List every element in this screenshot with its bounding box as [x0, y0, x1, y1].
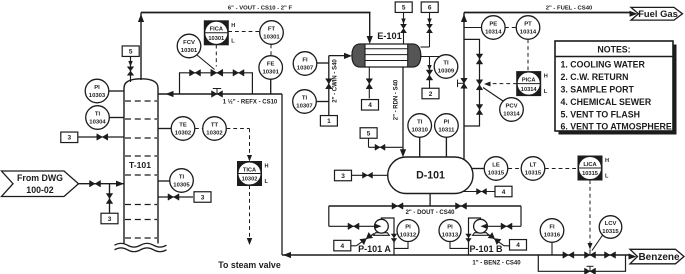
notes box shadow	[559, 45, 677, 135]
control valve LCV on header	[589, 250, 591, 256]
svg-text:5: 5	[129, 49, 133, 56]
wire D-101 bottoms stub	[429, 194, 431, 207]
controller FICA 10301	[204, 21, 228, 45]
instrument FCV 10301	[197, 55, 215, 70]
instrument FI 10316	[551, 243, 553, 255]
exchanger E-101 left head	[352, 44, 365, 67]
tag box 5 vent to flash D-101	[360, 128, 377, 139]
svg-text:10315: 10315	[582, 171, 598, 177]
wire DOUT header	[329, 205, 521, 207]
wire tube vent to atmosphere	[429, 13, 431, 48]
valve on left sample line	[97, 134, 108, 141]
instrument LCV 10315 bubble	[592, 235, 603, 251]
svg-text:10301: 10301	[263, 35, 280, 41]
svg-text:5: 5	[402, 5, 406, 12]
svg-text:4. CHEMICAL SEWER: 4. CHEMICAL SEWER	[561, 97, 652, 107]
controller PICA 10314	[517, 72, 541, 96]
wire FI 10307 stub	[317, 62, 329, 64]
svg-text:4: 4	[502, 189, 506, 196]
wire CW return outlet	[421, 56, 440, 58]
svg-text:5: 5	[367, 130, 371, 137]
instrument TT 10302	[203, 117, 227, 141]
svg-text:10303: 10303	[89, 93, 106, 99]
valve tube vent	[427, 24, 433, 33]
svg-text:LCV: LCV	[605, 221, 617, 227]
instrument PI 10313	[450, 242, 469, 249]
column T-101 shell	[124, 79, 158, 244]
svg-text:4: 4	[340, 243, 344, 250]
flow arrow RDN into D-101	[400, 149, 406, 157]
flow arrow into pump B	[485, 225, 487, 227]
svg-text:LICA: LICA	[583, 162, 596, 168]
wire feed drain branch	[109, 184, 111, 214]
wire pump B suction	[520, 206, 522, 226]
wire RDN line E-101 to D-101	[402, 67, 404, 151]
flow arrow down on vent stub	[128, 61, 133, 67]
flow arrow up fuel riser	[461, 14, 467, 22]
signal LE-LT	[508, 168, 521, 170]
instrument LT 10315	[521, 157, 545, 181]
signal PE-PT	[505, 27, 516, 29]
svg-text:6. VENT TO ATMOSPHERE: 6. VENT TO ATMOSPHERE	[561, 121, 672, 131]
controller TICA 10302	[238, 162, 262, 186]
check valve pump A discharge	[391, 234, 397, 243]
svg-text:D-101: D-101	[416, 170, 445, 182]
svg-text:H: H	[605, 158, 609, 164]
svg-text:3: 3	[341, 173, 345, 180]
control valve FCV on bypass	[211, 69, 223, 76]
off-page connector Benzene	[629, 254, 637, 260]
valve shell vent	[401, 24, 407, 33]
svg-text:FI: FI	[549, 225, 555, 231]
wire pump B discharge	[469, 218, 481, 255]
tag box 2 CW return	[422, 88, 439, 99]
svg-text:E-101: E-101	[377, 31, 402, 41]
svg-text:1 ½" - REFX - CS10: 1 ½" - REFX - CS10	[223, 99, 278, 106]
svg-text:10315: 10315	[602, 229, 619, 235]
wire REFX main line	[158, 93, 282, 95]
wire PCV manifold branch	[464, 39, 480, 126]
tag box 5 vent to flash E-101	[395, 2, 412, 13]
svg-text:PI: PI	[405, 225, 411, 231]
wire REFX bypass loop	[180, 73, 253, 94]
pump P-101 A	[374, 233, 390, 236]
signal LT to LICA	[545, 168, 578, 170]
tag box 5 vent to flash	[122, 46, 139, 57]
exchanger E-101 right head	[408, 44, 421, 67]
wire E-101 drain	[368, 67, 370, 99]
instrument PE 10314	[464, 27, 482, 29]
wire TI 10307 stub	[316, 101, 329, 103]
svg-text:T-101: T-101	[129, 160, 151, 170]
valve pump B suction	[501, 223, 512, 230]
flow arrow up on VOUT riser	[138, 14, 144, 22]
svg-text:To steam valve: To steam valve	[218, 260, 281, 270]
instrument FT 10301	[260, 21, 284, 45]
svg-text:2" - DOUT - CS40: 2" - DOUT - CS40	[406, 210, 456, 216]
svg-text:2: 2	[429, 91, 433, 98]
svg-text:10314: 10314	[521, 87, 538, 93]
svg-text:TE: TE	[179, 123, 187, 129]
svg-text:FICA: FICA	[210, 27, 223, 33]
svg-text:2. C.W. RETURN: 2. C.W. RETURN	[561, 72, 629, 82]
svg-text:From DWG: From DWG	[17, 173, 63, 183]
svg-text:3. SAMPLE PORT: 3. SAMPLE PORT	[561, 84, 635, 94]
instrument PCV 10314 bubble	[483, 88, 503, 102]
drum D-101	[388, 157, 473, 194]
svg-text:P-101 B: P-101 B	[469, 244, 503, 254]
svg-text:PCV: PCV	[505, 104, 517, 110]
svg-text:3: 3	[67, 135, 71, 142]
signal FICA-FT	[228, 31, 260, 33]
tag box 3 sample port feed	[101, 213, 118, 224]
svg-text:2" - CWIN - S40: 2" - CWIN - S40	[333, 59, 339, 103]
valve on CW return	[426, 70, 433, 80]
svg-text:10310: 10310	[412, 128, 429, 134]
svg-text:TI: TI	[95, 112, 101, 118]
wire vent-to-flash tie-in at RDN	[368, 138, 370, 147]
svg-text:LT: LT	[530, 163, 537, 169]
instrument FI 10307	[293, 52, 317, 76]
tag box 3 sample port D-101	[335, 170, 352, 181]
instrument PI 10312	[394, 242, 408, 249]
valve D-101 drain	[477, 189, 487, 195]
exchanger E-101 tube lines	[365, 48, 408, 50]
svg-text:PI: PI	[94, 85, 100, 91]
svg-text:H: H	[231, 23, 235, 29]
svg-text:TT: TT	[211, 123, 219, 129]
wire D-101 sample line	[351, 174, 388, 176]
svg-text:Benzene: Benzene	[638, 252, 680, 263]
svg-text:10301: 10301	[263, 70, 280, 76]
svg-text:1" - BENZ - CS40: 1" - BENZ - CS40	[472, 261, 521, 267]
svg-text:L: L	[265, 179, 269, 185]
svg-text:TI: TI	[302, 96, 308, 102]
tag box 3 sample port left	[61, 132, 78, 143]
signal FT-FE	[270, 45, 272, 56]
svg-text:10307: 10307	[296, 104, 313, 110]
svg-text:TICA: TICA	[243, 167, 256, 173]
instrument TI 10304	[86, 106, 110, 130]
svg-text:FE: FE	[267, 62, 275, 68]
svg-text:5. VENT TO FLASH: 5. VENT TO FLASH	[561, 109, 641, 119]
tag box 4 chemical sewer E-101	[362, 100, 379, 111]
wire shell vent to flash	[403, 13, 405, 45]
instrument TI 10307	[293, 90, 317, 114]
svg-text:P-101 A: P-101 A	[358, 244, 391, 254]
valve PCV manifold top	[476, 54, 483, 64]
svg-text:10301: 10301	[208, 36, 224, 42]
tag box 1 cooling water	[320, 116, 337, 127]
wire TI 10304 stub	[109, 117, 124, 119]
svg-text:TI: TI	[443, 61, 449, 67]
svg-text:1. COOLING WATER: 1. COOLING WATER	[561, 59, 646, 69]
valve on LCV bypass	[589, 266, 591, 271]
wire PI 10303 stub	[108, 90, 124, 92]
svg-text:10316: 10316	[544, 233, 561, 239]
valve DOUT right	[456, 203, 467, 210]
svg-text:10305: 10305	[173, 183, 190, 189]
svg-text:10312: 10312	[400, 233, 417, 239]
valve REFX bypass left	[190, 70, 201, 77]
wire pump A discharge	[381, 218, 394, 255]
svg-text:10309: 10309	[438, 69, 455, 75]
instrument TI 10310	[419, 137, 421, 157]
svg-text:10314: 10314	[503, 112, 520, 118]
tag box 4 chemical sewer D-101	[495, 186, 512, 197]
off-page connector Fuel Gas	[630, 11, 638, 17]
svg-text:FCV: FCV	[183, 40, 195, 46]
svg-text:L: L	[544, 89, 548, 95]
svg-text:10301: 10301	[181, 48, 198, 54]
svg-text:6" - VOUT - CS10 - 2" F: 6" - VOUT - CS10 - 2" F	[228, 6, 293, 12]
signal TICA to steam valve	[249, 185, 251, 238]
svg-text:FT: FT	[268, 27, 276, 33]
svg-text:FI: FI	[302, 58, 308, 64]
valve DOUT left	[392, 203, 403, 210]
control valve PCV 10314	[476, 80, 483, 90]
wire sample line left	[78, 136, 124, 138]
svg-text:3: 3	[201, 194, 205, 201]
globe valve on REFX main with stem	[216, 89, 218, 95]
exchanger E-101 shell	[352, 44, 421, 67]
svg-text:2" - RDN - S40: 2" - RDN - S40	[393, 79, 399, 120]
tag box 4 chemical sewer pump B	[510, 240, 527, 251]
svg-text:H: H	[544, 74, 548, 80]
wire column vent stub	[130, 56, 132, 82]
column T-101 tray lines	[125, 100, 157, 102]
valve benzene block left	[563, 252, 574, 259]
signal LICA to LCV	[589, 180, 591, 244]
wire pump A drain	[351, 245, 357, 247]
valve pump A drain	[360, 233, 373, 245]
svg-text:10302: 10302	[175, 131, 192, 137]
instrument PT 10314	[516, 16, 540, 40]
svg-text:10304: 10304	[89, 120, 106, 126]
wire BENZ product header	[282, 254, 630, 256]
flow arrow into E-101 shell top	[367, 36, 373, 44]
instrument TI 10305	[170, 169, 194, 193]
svg-text:10302: 10302	[206, 131, 223, 137]
svg-text:10313: 10313	[442, 233, 459, 239]
svg-text:10307: 10307	[297, 66, 314, 72]
svg-text:H: H	[265, 164, 269, 170]
svg-text:L: L	[605, 174, 609, 180]
valve on feed line	[90, 180, 101, 187]
svg-text:4: 4	[368, 102, 372, 109]
valve pump B drain	[488, 233, 501, 245]
wire right sample line	[158, 196, 193, 198]
svg-text:10314: 10314	[485, 30, 502, 36]
wire D-101 right drain	[462, 191, 495, 193]
svg-text:PICA: PICA	[522, 77, 536, 83]
wire TI 10305 stub	[158, 180, 170, 182]
svg-text:100-02: 100-02	[26, 185, 53, 195]
instrument PI 10303	[85, 79, 109, 103]
svg-text:6: 6	[428, 5, 432, 12]
svg-text:4: 4	[516, 242, 520, 249]
svg-text:10311: 10311	[438, 128, 455, 134]
wire LE stub	[471, 168, 484, 170]
valve on right sample line	[168, 194, 179, 201]
svg-text:PT: PT	[524, 22, 532, 28]
flow arrow to reflux riser	[283, 252, 291, 258]
signal PT to PICA	[527, 39, 529, 72]
wire pump A suction	[328, 206, 330, 226]
valve benzene block right	[605, 252, 616, 259]
flow arrow CWIN into E-101	[344, 53, 352, 59]
instrument FE 10301	[259, 56, 283, 80]
off-page connector From DWG 100-02	[2, 171, 79, 197]
instrument PI 10311	[445, 137, 447, 158]
svg-text:Fuel Gas: Fuel Gas	[638, 8, 678, 19]
svg-text:1: 1	[327, 118, 331, 125]
signal arrow into TICA 10302	[247, 155, 252, 162]
valve on flash tie-in	[375, 144, 385, 150]
wire LCV bypass loop	[538, 255, 625, 271]
valve on CWIN	[326, 79, 333, 89]
svg-text:PE: PE	[489, 22, 497, 28]
svg-text:TI: TI	[417, 120, 423, 126]
valve D-101 sample	[363, 172, 373, 178]
wire feed line	[79, 183, 125, 185]
wire reflux riser from product header	[281, 94, 283, 255]
wire fuel gas riser	[463, 13, 465, 161]
valve pump A suction	[348, 223, 359, 230]
wire FE to REFX line	[270, 79, 272, 94]
gate valve with stem on fuel riser bypass	[458, 82, 465, 84]
pump P-101 B	[473, 233, 489, 236]
flow arrow feed into column	[116, 181, 124, 187]
instrument TE 10302	[171, 117, 195, 141]
instrument LE 10315	[484, 157, 508, 181]
signal TT to TICA	[227, 128, 250, 130]
controller LICA 10315	[578, 156, 602, 180]
svg-text:2" - FUEL - CS40: 2" - FUEL - CS40	[546, 6, 593, 12]
svg-text:10315: 10315	[488, 171, 505, 177]
svg-text:10314: 10314	[520, 30, 537, 36]
valve REFX bypass right	[233, 70, 244, 77]
tag box 3 sample port right	[194, 192, 211, 203]
notes box	[555, 41, 673, 131]
valve PCV manifold bottom	[476, 105, 483, 115]
svg-text:10302: 10302	[242, 177, 258, 183]
svg-text:NOTES:: NOTES:	[597, 45, 630, 55]
valve on feed drain	[106, 194, 113, 204]
svg-text:3: 3	[108, 216, 112, 223]
svg-text:TI: TI	[179, 175, 185, 181]
signal PICA to PCV valve	[489, 83, 517, 85]
valve on column vent	[127, 67, 134, 76]
svg-text:PI: PI	[447, 225, 453, 231]
wire CWIN line	[328, 56, 330, 116]
wire TE 10302 stub	[158, 128, 171, 130]
svg-text:10315: 10315	[525, 171, 542, 177]
valve on E-101 drain	[366, 79, 373, 89]
wire pump B drain	[504, 245, 510, 247]
flow arrow into pump A	[375, 225, 377, 227]
tag box 4 chemical sewer pump A	[334, 240, 351, 251]
svg-text:PI: PI	[444, 120, 450, 126]
svg-text:LE: LE	[492, 163, 500, 169]
check valve pump B discharge	[465, 234, 471, 243]
flow arrow REFX into column	[166, 91, 174, 97]
signal FICA to valve	[215, 45, 217, 67]
instrument TI 10309	[434, 55, 458, 79]
svg-text:L: L	[231, 38, 235, 44]
signal TE-TT	[195, 128, 203, 130]
tag box 6 vent to atmosphere	[421, 2, 438, 13]
break symbol wavy lines at column bottom	[115, 243, 167, 247]
wire VOUT overhead line	[141, 12, 371, 14]
